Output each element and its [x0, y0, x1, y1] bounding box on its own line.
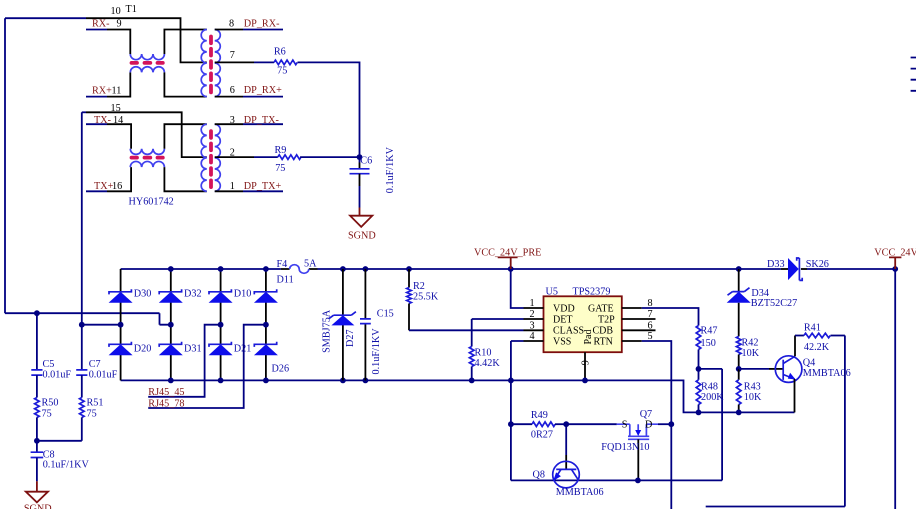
svg-text:F4: F4: [277, 259, 288, 270]
svg-text:R10: R10: [475, 348, 492, 359]
svg-text:25.5K: 25.5K: [413, 292, 439, 303]
wire R9 to C6: [300, 156, 359, 158]
resistor R42: [736, 336, 741, 369]
diode D26: [254, 342, 278, 356]
svg-text:0R27: 0R27: [531, 429, 553, 440]
pin 1 stub: [524, 307, 544, 309]
resistor R41: [795, 333, 845, 338]
junction dots middle row: [118, 322, 124, 328]
transistor Q7 FQD13N10 (mosfet): [617, 424, 672, 480]
TX choke to primary wires: [164, 124, 206, 191]
svg-text:DET: DET: [553, 314, 572, 325]
svg-text:RTN: RTN: [594, 336, 613, 347]
svg-text:10K: 10K: [744, 392, 762, 403]
svg-text:7: 7: [230, 50, 235, 61]
svg-text:C5: C5: [43, 359, 55, 370]
svg-text:1: 1: [230, 181, 235, 192]
svg-text:4.42K: 4.42K: [475, 358, 501, 369]
wire DET to R10: [472, 319, 524, 347]
svg-text:D26: D26: [272, 364, 290, 375]
svg-text:D31: D31: [184, 344, 202, 355]
pin 3 lead: [215, 123, 243, 125]
TX secondary winding: [215, 124, 221, 191]
resistor R2: [407, 269, 412, 330]
diode column D11/D26 wire: [265, 269, 267, 380]
svg-text:R6: R6: [274, 47, 286, 58]
resistor R49: [511, 422, 566, 427]
svg-text:VCC_24V_PRE: VCC_24V_PRE: [474, 248, 541, 259]
svg-text:D: D: [645, 420, 652, 431]
svg-text:6: 6: [648, 320, 653, 331]
wire VDD from VCC_24V_PRE: [511, 269, 524, 308]
diode D20: [109, 342, 133, 356]
RX choke top winding: [130, 54, 164, 60]
wire Q4 collector up: [794, 336, 796, 357]
wire R49 to Q7 source: [566, 423, 617, 425]
resistor R6: [274, 60, 297, 65]
svg-text:9: 9: [117, 19, 122, 30]
pin 8 stub: [622, 307, 642, 309]
svg-text:FQD13N10: FQD13N10: [601, 442, 649, 453]
svg-text:14: 14: [113, 115, 123, 126]
wire R41 right leg down: [706, 336, 845, 507]
TX choke core dashes: [132, 156, 163, 160]
svg-text:C7: C7: [89, 359, 101, 370]
resistor R43: [736, 369, 741, 413]
pin 4 stub: [524, 340, 544, 342]
junction dot R49 node: [508, 421, 514, 427]
svg-text:200K: 200K: [701, 392, 724, 403]
RX primary winding: [201, 30, 207, 97]
RX secondary winding: [215, 30, 221, 97]
diode column D10/D21 wire: [220, 269, 222, 380]
pin 1 lead: [215, 190, 243, 192]
junction dot Q7 drain to RTN: [668, 421, 674, 427]
junction dot R42/R43: [736, 366, 742, 372]
transistor Q8 MMBTA06: [553, 461, 580, 488]
ground SGND (below C8): [26, 481, 48, 502]
resistor R50: [35, 398, 40, 441]
resistor R10: [469, 347, 474, 381]
svg-text:R42: R42: [742, 338, 759, 349]
junction dot R43 bottom: [736, 410, 742, 416]
svg-text:0.1uF/1KV: 0.1uF/1KV: [43, 460, 90, 471]
diode D32: [159, 289, 183, 303]
capacitor C6: [350, 157, 370, 207]
zener diode D34 BZT52C27: [727, 269, 751, 336]
svg-text:150: 150: [701, 338, 716, 349]
wire VCC_24V rail down right edge: [894, 269, 896, 509]
wire Q4 emitter down: [794, 379, 796, 412]
svg-text:16: 16: [112, 181, 122, 192]
svg-text:3: 3: [230, 115, 235, 126]
transformer T1: [82, 18, 283, 191]
junction dot R47/R48: [696, 366, 702, 372]
capacitor C8: [31, 441, 44, 482]
svg-text:15: 15: [111, 103, 121, 114]
svg-text:D27: D27: [345, 329, 356, 347]
svg-text:MMBTA06: MMBTA06: [556, 487, 604, 498]
svg-text:5A: 5A: [304, 258, 317, 269]
svg-text:SMBJ75A: SMBJ75A: [321, 309, 332, 353]
capacitor C7: [76, 325, 87, 398]
svg-text:Pad: Pad: [583, 330, 594, 345]
diode D11: [254, 289, 278, 303]
pad pin 9 stub: [584, 352, 586, 380]
power port VCC_24V_PRE: [498, 257, 518, 269]
svg-text:4: 4: [530, 331, 535, 342]
pin 11 RX+ lead: [86, 96, 107, 98]
svg-text:42.2K: 42.2K: [804, 342, 830, 353]
right edge dashes: [911, 58, 916, 91]
junction dot Q8 base node: [563, 421, 569, 427]
svg-text:75: 75: [42, 409, 52, 420]
svg-text:CDB: CDB: [593, 325, 614, 336]
svg-text:R43: R43: [744, 382, 761, 393]
RX core dashes: [209, 37, 213, 93]
svg-text:BZT52C27: BZT52C27: [751, 298, 797, 309]
svg-text:6: 6: [230, 85, 235, 96]
svg-text:DP_RX-: DP_RX-: [244, 19, 280, 30]
svg-text:C15: C15: [377, 308, 394, 319]
junction dots bottom bus: [168, 378, 174, 384]
RX choke to primary wires: [164, 30, 206, 97]
pin 2 stub: [524, 318, 544, 320]
fuse F4: [281, 265, 318, 274]
svg-text:D33: D33: [767, 259, 785, 270]
resistor R47: [696, 326, 701, 369]
junction at C6: [357, 154, 363, 160]
svg-text:9: 9: [581, 360, 592, 365]
svg-text:2: 2: [230, 147, 235, 158]
resistor R9: [278, 155, 301, 160]
svg-text:0.1uF/1KV: 0.1uF/1KV: [371, 328, 382, 375]
svg-text:RJ45_78: RJ45_78: [148, 398, 184, 409]
svg-text:SGND: SGND: [348, 231, 376, 242]
svg-text:D30: D30: [134, 289, 152, 300]
svg-text:VSS: VSS: [553, 336, 571, 347]
junction dots top bus: [168, 266, 174, 272]
ground SGND (below C6): [350, 208, 372, 227]
TX choke bottom winding: [130, 161, 164, 167]
svg-text:R50: R50: [42, 398, 59, 409]
svg-text:DP_RX+: DP_RX+: [244, 85, 282, 96]
wire GATE net: [642, 308, 699, 326]
svg-text:8: 8: [229, 19, 234, 30]
pin 9 RX- lead: [86, 29, 107, 31]
pin 5 stub: [622, 340, 642, 342]
svg-text:75: 75: [87, 409, 97, 420]
TVS diode D27 SMBJ75A: [329, 269, 356, 380]
svg-text:T2P: T2P: [598, 314, 615, 325]
junction dots on RTN bus: [469, 378, 475, 384]
svg-text:2: 2: [530, 309, 535, 320]
wire TX net 15 vertical: [82, 112, 121, 324]
wire R6 to C6: [298, 62, 360, 157]
transistor Q4 MMBTA06: [775, 356, 802, 383]
svg-text:75: 75: [277, 66, 287, 77]
svg-text:D32: D32: [184, 289, 202, 300]
svg-text:VDD: VDD: [553, 303, 575, 314]
svg-text:10: 10: [111, 6, 121, 17]
wire RTN net: [642, 341, 672, 509]
diode column D30/D20 wire: [120, 269, 122, 380]
pin 7 stub: [622, 318, 656, 320]
svg-text:0.01uF: 0.01uF: [43, 370, 72, 381]
svg-text:SGND: SGND: [24, 504, 52, 509]
svg-text:7: 7: [648, 309, 653, 320]
svg-text:TPS2379: TPS2379: [573, 287, 611, 298]
diode D33 SK26: [781, 258, 807, 280]
svg-text:D21: D21: [234, 344, 252, 355]
svg-text:DP_TX+: DP_TX+: [244, 181, 282, 192]
svg-text:Q4: Q4: [803, 358, 815, 369]
svg-text:MMBTA06: MMBTA06: [803, 368, 851, 379]
svg-text:3: 3: [530, 320, 535, 331]
svg-text:D20: D20: [134, 344, 152, 355]
pin 8 lead: [215, 29, 243, 31]
svg-text:11: 11: [112, 86, 122, 97]
svg-text:R47: R47: [701, 326, 718, 337]
svg-text:TX+: TX+: [94, 181, 114, 192]
junction dot R48 bottom: [696, 410, 702, 416]
diode column D32/D31 wire: [170, 269, 172, 380]
diode D10: [209, 289, 233, 303]
diode D21: [209, 342, 233, 356]
svg-text:T1: T1: [126, 4, 137, 15]
pin 6 stub: [622, 329, 656, 331]
pin 2 lead: [215, 156, 254, 158]
svg-text:R51: R51: [87, 398, 104, 409]
svg-text:U5: U5: [546, 287, 558, 298]
wire C5 branch: [36, 313, 38, 370]
pin 14 TX- lead: [86, 123, 107, 125]
svg-text:75: 75: [275, 163, 285, 174]
svg-text:SK26: SK26: [806, 259, 829, 270]
diode D31: [159, 342, 183, 356]
svg-text:TX-: TX-: [94, 115, 112, 126]
TX primary winding: [201, 124, 207, 191]
svg-text:0.1uF/1KV: 0.1uF/1KV: [385, 146, 396, 193]
power port VCC_24V: [889, 257, 901, 269]
svg-text:S: S: [622, 420, 628, 431]
svg-text:R48: R48: [701, 382, 718, 393]
wire VSS down: [511, 341, 722, 480]
wire net RJ45_78: [148, 325, 266, 408]
wire R47/R48 node to gate drive: [699, 368, 723, 370]
svg-text:D11: D11: [277, 275, 294, 286]
wire Q8 base: [565, 424, 567, 455]
pin 3 stub: [524, 329, 544, 331]
svg-text:RX+: RX+: [92, 86, 112, 97]
svg-text:DP_TX-: DP_TX-: [244, 115, 280, 126]
pin 7 lead: [215, 61, 254, 63]
junction dot Q7 gate node: [635, 478, 641, 484]
svg-text:1: 1: [530, 298, 535, 309]
wire top bus VCC_24V_PRE: [121, 268, 896, 270]
capacitor C5: [31, 370, 42, 398]
svg-text:0.01uF: 0.01uF: [89, 370, 118, 381]
svg-text:D10: D10: [234, 289, 252, 300]
svg-text:Q8: Q8: [533, 470, 545, 481]
wire net to pin 10 (left vertical + top): [5, 18, 171, 325]
pin 15 lead: [82, 111, 86, 113]
svg-text:CLASS: CLASS: [553, 325, 584, 336]
diode D30: [109, 289, 133, 303]
svg-text:R41: R41: [804, 323, 821, 334]
pin 6 lead: [215, 96, 243, 98]
svg-text:R49: R49: [531, 410, 548, 421]
svg-text:R2: R2: [413, 281, 425, 292]
svg-text:HY601742: HY601742: [129, 197, 174, 208]
ic U5 TPS2379: [544, 296, 622, 352]
pin 10 lead: [86, 18, 207, 62]
TX core dashes: [209, 131, 213, 187]
RX choke core dashes: [132, 61, 163, 65]
wire R42/R43 node to Q4 base: [739, 368, 769, 370]
wire bottom bus (RTN): [121, 380, 795, 412]
svg-text:RJ45_45: RJ45_45: [148, 387, 184, 398]
svg-text:VCC_24V: VCC_24V: [874, 248, 916, 259]
wire R2 to CLASS pin: [409, 329, 524, 331]
resistor R48: [696, 369, 701, 413]
wire net RJ45_45: [148, 325, 220, 397]
svg-text:GATE: GATE: [588, 303, 614, 314]
wire R50/R51 join: [37, 440, 82, 442]
svg-text:R9: R9: [275, 145, 287, 156]
pin 16 TX+ lead: [86, 190, 107, 192]
svg-text:C6: C6: [360, 156, 372, 167]
TX choke top winding: [130, 149, 164, 155]
RX choke bottom winding: [130, 67, 164, 73]
svg-text:10K: 10K: [742, 348, 760, 359]
capacitor C15: [360, 269, 371, 380]
resistor R51: [80, 398, 85, 441]
svg-text:RX-: RX-: [92, 19, 110, 30]
